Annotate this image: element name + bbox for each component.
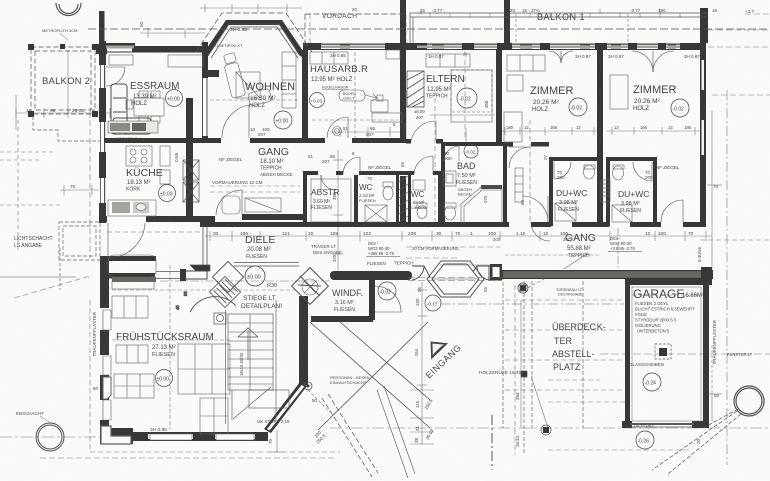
room label WOHNEN <box>245 81 295 109</box>
diamond column white at stiege <box>212 261 243 292</box>
wall: garage left <box>625 279 630 428</box>
dim vertical x521 <box>466 128 521 428</box>
room label DU+WC 1 <box>556 188 587 213</box>
door arc KUECHE-DIELE <box>108 223 145 258</box>
axis dash-dot eingang right <box>440 303 624 305</box>
kitchen counter top <box>108 121 158 141</box>
dim texts winde <box>417 286 488 292</box>
level circle stiege <box>245 266 265 286</box>
diele table <box>222 196 281 214</box>
stub end caps at entrance <box>412 266 501 280</box>
misc short dimension stubs kitchen <box>60 185 99 195</box>
wall: east exterior <box>700 43 706 225</box>
label EINGANG rotated <box>414 342 463 380</box>
balcony step dashes <box>33 116 100 141</box>
label KUJETIPOD <box>214 43 243 48</box>
vertical dims mid <box>333 150 343 270</box>
stub wall left of stiege opening <box>156 269 207 281</box>
eingang triangle <box>432 343 447 358</box>
curved step edge R30 <box>190 297 236 312</box>
kitchen stove <box>126 146 152 166</box>
wall: HAUSARB-ELTERN divider <box>400 42 443 226</box>
diagonal dashes below entrance <box>322 394 378 477</box>
label FENSTER LT <box>727 352 753 357</box>
wall: main south wall y222 <box>200 222 706 227</box>
holzstuetze guide diagonal <box>524 270 560 428</box>
room label WC 2 <box>409 190 426 210</box>
room label DIELE <box>245 234 275 260</box>
label VORMAUERUNG <box>212 180 263 185</box>
level circle garage <box>643 373 661 391</box>
dim row y128 (gang18 head) <box>330 127 400 137</box>
wall: GANG55 south beam <box>490 264 713 280</box>
lichtschacht line <box>0 248 76 290</box>
balkon2 corner posts <box>28 44 98 117</box>
diamond column at winde left <box>292 268 329 305</box>
dim 45/55 rotated <box>175 291 188 310</box>
post symbol bottom <box>541 425 551 435</box>
dim text rows top <box>139 7 754 27</box>
dash diagonal lower-left <box>14 276 335 458</box>
bay window glazing inner line <box>208 24 300 58</box>
label VORDACH top <box>322 13 357 20</box>
duwc1 fixtures <box>555 165 595 221</box>
LAYER: furniture <box>101 47 632 444</box>
door arc ZIMMER2 balcony door <box>632 51 674 72</box>
label 3H 0.85 fruehstueck <box>150 427 167 433</box>
room label ESSRAUM <box>130 81 179 107</box>
wall: Fruehstueck north + lintel <box>100 256 156 279</box>
abstellplatz dashed horizontals <box>505 285 690 455</box>
room label BALKON 2 <box>42 76 90 87</box>
wall: balcony1 right pier <box>700 8 708 43</box>
label NF ZIEGEL 2 <box>368 165 392 170</box>
essraum sideboard <box>109 55 203 67</box>
gang55 dim row y236 <box>205 231 712 241</box>
small pillar left bottom <box>103 377 111 399</box>
shaft between du+wc <box>601 180 610 202</box>
wohnen wall unit <box>282 52 348 108</box>
level circle zimmer1 <box>569 98 587 116</box>
eltern door arc <box>411 121 436 141</box>
label GLASSCHEIBEN <box>629 362 664 367</box>
door arc ZIMMER2 entry <box>661 200 683 222</box>
vordach dash line top <box>88 28 768 30</box>
wall: ESSRAUM west exterior <box>99 41 106 223</box>
bad door arc <box>444 146 459 161</box>
kitchen sink block <box>108 200 156 216</box>
wall: balcony1 left pier <box>400 0 406 43</box>
label UK STURZ garage <box>634 423 655 428</box>
fruehstueck tables east <box>200 398 228 434</box>
stair hall: stairs <box>226 300 290 424</box>
winde mat <box>302 279 318 295</box>
dim texts bottom-left <box>414 398 520 447</box>
hausarb gully bubble <box>322 86 383 102</box>
room label GANG 18 <box>258 146 293 177</box>
tree guys dashed <box>652 409 741 474</box>
level circle zimmer2 <box>671 99 689 117</box>
door arc WC2 top <box>414 156 433 174</box>
fruehstueck dashed grid <box>112 265 296 430</box>
room label WC 1 <box>359 183 376 203</box>
level circle winde <box>378 282 396 300</box>
dims bottom-left of entrance <box>270 385 434 452</box>
right side dim lines <box>600 110 770 421</box>
zimmer2 bed <box>610 75 628 109</box>
tree circle bottom-left <box>36 423 64 451</box>
room label ZIMMER 1 <box>530 85 573 113</box>
label NF ZIEGEL 1 <box>219 157 243 162</box>
door arc HAUSARB from GANG <box>327 117 348 138</box>
window head labels top <box>428 54 700 59</box>
label TRAUFENPFLASTER right (vertical) <box>712 319 717 364</box>
label door note right <box>608 236 642 252</box>
label STIEGE <box>241 283 282 310</box>
label METROPLITH <box>42 28 77 40</box>
wall: garage right <box>701 267 712 428</box>
shaft hatch between WCs <box>399 176 408 222</box>
label 3H 0.85 top <box>230 27 247 33</box>
door arc WC1 top <box>343 157 360 174</box>
right top dashes <box>708 14 770 95</box>
garage column <box>655 344 671 359</box>
level circle essraum <box>166 90 183 107</box>
label PERSONEN EINLAUF <box>330 375 370 385</box>
abstellplatz posts dashed <box>503 276 583 455</box>
door arc ABSTR top <box>321 175 336 190</box>
door arc GANG-DIELE opening <box>216 190 242 215</box>
essraum couch <box>111 84 151 134</box>
room label WINDE <box>332 288 363 313</box>
zimmer dim row y265 <box>440 255 600 265</box>
wall: BAD box <box>441 142 549 226</box>
dim texts right side <box>696 184 720 444</box>
hausarb dashes <box>312 52 398 140</box>
wall: HAUSARB north <box>303 43 413 50</box>
balkon2 railing dashed <box>31 47 95 114</box>
dim texts near entrance bottom <box>93 386 327 445</box>
label TRAUFENPFLASTER left (vertical) <box>92 311 97 356</box>
eltern wardrobe <box>426 54 470 67</box>
zimmer1 bed <box>504 112 522 142</box>
fruehstueck tables row3 <box>114 374 154 398</box>
wc1 fixtures <box>365 182 393 222</box>
dim texts kitchen <box>70 152 180 223</box>
label fliesen diele right <box>367 261 414 267</box>
label NF ZIEGEL 3 <box>656 165 680 170</box>
hatch shaft left of eltern <box>407 71 424 107</box>
door arc balcony-essraum <box>106 67 125 86</box>
abstellplatz top posts <box>518 283 528 377</box>
room label ELTERN <box>426 74 465 100</box>
label BALKON 1 <box>537 12 585 22</box>
kitchen shaft hatch boxes <box>183 160 199 202</box>
balkon1 rail lines <box>410 13 707 43</box>
bad sunken shower <box>461 185 502 224</box>
wall: WOHNEN-HAUSARB divider <box>302 50 308 141</box>
window sills left wall fruehstueck <box>103 310 111 420</box>
duwc2 fixtures <box>612 165 632 222</box>
wohnen table <box>236 72 260 98</box>
room label GARAGE <box>633 287 704 334</box>
abst dim row <box>308 151 355 164</box>
dim ticks top strip <box>421 9 704 14</box>
stair dim rotated <box>239 352 244 376</box>
level circle eltern <box>457 88 477 108</box>
label UK STURZ <box>257 419 290 424</box>
essraum table group <box>126 91 164 123</box>
vordach dashed verticals <box>310 14 530 222</box>
label LICHTSCHACHT <box>14 236 53 249</box>
left margin dashes <box>0 120 60 250</box>
dim verticals left <box>16 50 90 258</box>
room label KUECHE <box>126 167 163 193</box>
eltern dim row y30 <box>406 90 495 140</box>
stair arrow <box>238 328 258 360</box>
wall: WINDE right <box>369 280 375 320</box>
wall: WINDE south <box>311 316 373 322</box>
wc2 fixtures <box>413 180 427 219</box>
tree circle bottom-right <box>734 386 764 416</box>
corner pillar bottom-left <box>101 426 131 444</box>
wall: garage top <box>625 279 712 285</box>
hausarb appliances <box>333 50 403 136</box>
door arc WINDE east <box>375 286 401 312</box>
wall: WOHNEN bay window <box>203 20 305 57</box>
level circle kueche <box>159 185 176 202</box>
dim texts vertical mid <box>332 154 548 400</box>
vordach outline above bay <box>196 13 406 52</box>
label HOLZSRUETZE 1645 <box>479 369 522 376</box>
wall: WINDE top band <box>330 271 412 280</box>
center axis dash-dot horizontal y428 <box>0 428 770 437</box>
wall: GANG north (y141) <box>104 138 406 143</box>
wall: garage bottom <box>622 421 709 428</box>
label ERSCHACHT <box>16 411 52 424</box>
room label HAUSARBR <box>310 64 368 83</box>
level circle wohnen <box>274 111 292 129</box>
label door note D03 <box>366 241 400 257</box>
wall: KUECHE/GANG south (y217) <box>99 214 305 222</box>
wall: stair hall east <box>299 296 308 385</box>
fruehstueck tables center <box>178 344 230 394</box>
door arc DU+WC1 <box>554 162 571 179</box>
window sills bottom wall <box>150 434 254 440</box>
fruehstueck tables row2 <box>116 345 148 363</box>
wall: Fruehstueck south <box>100 428 268 444</box>
eltern rug <box>451 70 492 122</box>
room label ABSTR <box>311 187 339 211</box>
wall: corner stub top-left <box>96 11 107 54</box>
semicircle top-left <box>56 3 81 16</box>
level circle eingang <box>425 295 441 311</box>
dim texts second row <box>493 237 571 242</box>
label HOLZSRUEZE bottom <box>0 0 1 1</box>
wall: ABSTR-WC block <box>303 171 442 226</box>
dim line row under balkon2 <box>16 108 110 118</box>
wall: DU+WC 1 box <box>549 157 600 226</box>
abstr inner outline <box>311 179 351 222</box>
balkon1 floor ticks <box>430 13 680 17</box>
hall shelf <box>515 168 523 202</box>
label TUERENBAU <box>556 288 583 297</box>
LAYER: walls <box>96 0 713 444</box>
room label BAD <box>456 161 477 197</box>
wall: ESSRAUM-WOHNEN divider <box>202 42 219 143</box>
label UEBERDECKTER ABSTELLPLATZ <box>552 322 606 372</box>
label 20CM VORMAUERUNG <box>412 246 459 251</box>
axis dashes through hexagon <box>408 278 502 281</box>
hexagon planter <box>427 261 484 297</box>
vertical axis x492 <box>491 415 493 470</box>
bad fixtures <box>443 171 456 220</box>
wall: ELTERN-ZIMMER1 divider <box>496 50 502 144</box>
label TRAEGER <box>311 243 342 255</box>
door arc ELTERN hall <box>509 147 530 168</box>
door arc ZIMMER1 entry <box>522 196 548 222</box>
wall: ELTERN-ZIMMER north <box>413 43 706 50</box>
small box with circle at stair head <box>214 313 226 324</box>
dim texts gang row y235 <box>213 231 694 237</box>
level circle fruehstueck <box>156 370 173 387</box>
traufenpflaster dashed border left <box>90 300 340 452</box>
door arc ZIMMER1 balcony door <box>549 51 573 63</box>
level circle before garage <box>636 431 654 449</box>
drain circle at wall end <box>304 382 312 390</box>
diele dashed ceiling lines <box>107 186 300 232</box>
gang55 centerline dashes <box>406 247 500 258</box>
wall: ESSRAUM north lintel <box>99 43 206 53</box>
wall: chamfer SE of Fruehstuecksraum <box>264 382 307 433</box>
wall: kitchen shaft column <box>186 98 193 222</box>
corner piece above diamond <box>190 225 210 271</box>
wall: balcony1 divider pier <box>504 0 510 43</box>
solid diagonals right of entrance <box>377 386 415 478</box>
door size labels <box>367 151 653 203</box>
door arc DU+WC2 <box>633 162 652 181</box>
level circle bad <box>464 144 478 158</box>
window gray sashes top wall <box>106 46 680 49</box>
garage top dashed <box>632 294 700 296</box>
wall: Fruehstueck west exterior <box>100 256 109 444</box>
dims above top wall <box>140 14 628 43</box>
room label FRUEHSTUECKSRAUM <box>116 331 214 358</box>
door arc garage GANG <box>531 222 550 241</box>
room label GANG 55 <box>565 232 596 259</box>
fruehstueck top counter <box>112 281 154 289</box>
diamond column hatched at stiege <box>209 276 240 307</box>
diele bench <box>108 255 156 282</box>
dim near entrance <box>417 282 427 390</box>
vertical dash-dot x727 <box>726 90 728 465</box>
lichtschacht dashed box <box>59 222 100 260</box>
label 3H 0.85 hausarb <box>330 53 346 58</box>
wohnen sofa rotated <box>222 47 272 111</box>
dim text row under balkon2 <box>26 108 95 114</box>
zimmer1 wardrobe <box>507 55 545 91</box>
wall: DU+WC 2 box <box>606 157 657 226</box>
kitchen side shelf <box>160 146 170 184</box>
fruehstueck tables row1 <box>112 296 148 318</box>
level circle hausarb <box>310 93 325 108</box>
garage door line <box>630 426 694 428</box>
garage inner line <box>632 287 701 421</box>
entrance X braces <box>310 322 430 430</box>
wohnen dashes <box>210 99 300 101</box>
wall: ZIMMER1-ZIMMER2 divider <box>597 50 603 226</box>
dim texts gang18 <box>250 122 396 137</box>
room label ZIMMER 2 <box>633 84 676 112</box>
door arc WOHNEN from GANG <box>222 105 249 138</box>
room label DU+WC 2 <box>618 189 649 214</box>
